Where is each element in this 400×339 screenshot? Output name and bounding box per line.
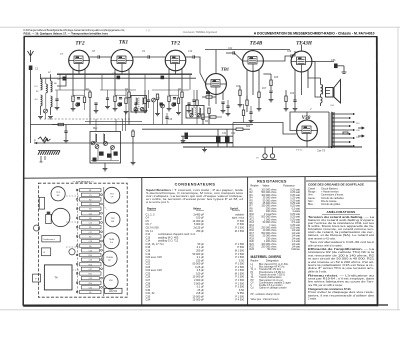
capacitor C4 <box>63 77 67 81</box>
resistor R15 <box>239 90 241 96</box>
resistor R2b <box>83 97 85 103</box>
svg-text:R19: R19 <box>290 93 295 95</box>
resistor R20 filter <box>236 128 243 130</box>
coil L1 antenna primary <box>41 79 43 90</box>
potentiometer P1 volume <box>38 137 51 144</box>
tube U6 TE43H <box>291 51 312 72</box>
svg-text:née 700, par un suffit à coupe: née 700, par un suffit à couper. <box>308 283 343 287</box>
tube U4 TB1 <box>206 74 227 95</box>
svg-text:Repère: Repère <box>251 185 260 188</box>
wire: plate link TB1-TE4B <box>205 49 290 51</box>
chassis layout box (vue de dessous) <box>38 183 127 297</box>
ground: bus B <box>204 147 206 149</box>
capacitor C16c <box>147 100 150 101</box>
svg-text:C20: C20 <box>89 250 92 252</box>
resistor R12 screen U1 <box>89 92 91 98</box>
capacitor C15 <box>134 103 137 104</box>
svg-text:GO: GO <box>35 99 39 101</box>
svg-text:tantes, il est recommandé d’ut: tantes, il est recommandé d’utiliser des <box>308 293 375 297</box>
coil L2 antenna secondary <box>41 95 43 106</box>
wire: tube U6 legs <box>301 72 303 95</box>
svg-text:Condensateur: Condensateur <box>43 238 55 241</box>
svg-text:R20: R20 <box>246 126 251 128</box>
wire: verticals top bus <box>59 74 61 90</box>
osc box inner parts <box>93 158 97 162</box>
capacitor C17b <box>192 100 195 101</box>
vertical divider cond/resist <box>247 177 249 305</box>
svg-text:et de service pour S.: et de service pour S. <box>146 200 170 204</box>
svg-text:R8: R8 <box>89 246 91 248</box>
wire: L7 drops to AVC <box>153 102 155 125</box>
svg-text:P.B.B. — 19. Quelques Valeurs: P.B.B. — 19. Quelques Valeurs 17. — Tran… <box>24 31 109 35</box>
svg-text:R15: R15 <box>236 86 241 88</box>
svg-text:Désignation: Désignation <box>266 259 279 262</box>
svg-text:C23: C23 <box>89 260 92 262</box>
tube U5 TE4B <box>243 51 264 72</box>
resistor/capacitor group U1 cathode <box>72 96 74 102</box>
capacitor C21 <box>226 106 229 107</box>
svg-text:Transfo de sortie 7 000 Ω: Transfo de sortie 7 000 Ω <box>259 273 285 276</box>
svg-text:TB1: TB1 <box>221 67 229 72</box>
chassis part: fuse holder <box>33 274 41 282</box>
trimmer CT5 <box>118 103 122 107</box>
svg-text:MATERIEL DIVERS: MATERIEL DIVERS <box>251 255 282 259</box>
oscillator block L5/L6 <box>90 132 121 164</box>
ground: coil L4 <box>48 117 53 119</box>
tube socket spare <box>52 208 70 226</box>
svg-text:C16: C16 <box>168 119 173 121</box>
wire: return bus A with arrow <box>34 142 233 144</box>
svg-text:Valve type : d’accord réserv.: Valve type : d’accord réserv. <box>251 298 280 301</box>
wire: osc to ground <box>104 163 106 168</box>
resistor R14 screen U3 <box>181 92 183 98</box>
capacitor C23 <box>293 100 296 101</box>
coil L2b third winding <box>46 84 48 93</box>
svg-text:bobinée: bobinée <box>291 248 300 251</box>
capacitor C13 padding <box>99 152 104 156</box>
svg-text:plifiée de 9 volts.: plifiée de 9 volts. <box>308 269 327 273</box>
diode load parts <box>206 91 210 94</box>
svg-text:C26: C26 <box>287 51 292 53</box>
svg-text:TE4B: TE4B <box>250 41 263 47</box>
svg-text:R17: R17 <box>89 274 92 276</box>
wire: mains to transformer <box>264 147 266 150</box>
tube socket TE43H PP <box>102 251 117 266</box>
wire: tube U5 plate to top bus <box>252 50 254 51</box>
trimmer CT6 <box>172 103 176 107</box>
svg-text:CODE DES ORGANES DE SOUFFLAGE: CODE DES ORGANES DE SOUFFLAGE <box>308 182 364 186</box>
resistor R18 tone chain <box>270 80 272 86</box>
trimmer CT4 <box>76 103 80 107</box>
svg-text:Potentiomètre 0,5 MΩ A.I.: Potentiomètre 0,5 MΩ A.I. <box>259 271 286 274</box>
chassis part: condensateur box <box>42 235 60 242</box>
svg-text:TF2: TF2 <box>171 41 181 47</box>
wire: mains arrows <box>358 127 364 137</box>
terminal strip (resistors/caps) <box>76 187 104 296</box>
capacitor C19 coupling U3-U4 <box>193 55 194 58</box>
ground: filter <box>181 141 186 143</box>
wire: antenna lead down <box>30 70 32 143</box>
svg-text:Circuits de grilles.: Circuits de grilles. <box>321 203 341 206</box>
svg-text:Bleu :: Bleu : <box>308 203 315 206</box>
svg-text:— vue dessous —: — vue dessous — <box>71 180 94 184</box>
wire: coil L3/L4 leads <box>50 74 52 81</box>
capacitor C10 <box>117 76 121 80</box>
capacitor C14 padding <box>107 154 112 158</box>
divider line above tables <box>23 176 377 178</box>
wire: tuning gang dashed <box>44 118 130 120</box>
resistor/capacitor group U3 cathode <box>168 96 170 102</box>
svg-text:Transfos MF 472 kc/s: Transfos MF 472 kc/s <box>259 268 282 271</box>
svg-text:TK1: TK1 <box>119 40 129 46</box>
capacitor C20 <box>221 102 224 103</box>
svg-text:M 1 500: M 1 500 <box>235 229 245 233</box>
wire: tube U3 legs <box>175 71 177 74</box>
variable capacitor CV1 <box>44 109 48 113</box>
IF transformer T2 (MF2) <box>186 106 204 119</box>
capacitor C8 coupling U1-U2 <box>98 55 99 58</box>
svg-text:C30: C30 <box>89 287 92 289</box>
capacitor C12b <box>161 76 165 80</box>
svg-text:TF2: TF2 <box>75 41 85 47</box>
capacitor C26 coupling U5-U6 <box>291 54 292 57</box>
trimmer CT2 <box>104 142 108 146</box>
wire: HT line <box>181 141 233 143</box>
svg-text:C11: C11 <box>89 213 92 215</box>
wire: gang verticals <box>45 113 47 119</box>
table: RESISTANCES <box>250 179 301 300</box>
wire: AVC bus <box>31 124 254 126</box>
coil L3 <box>51 81 53 92</box>
wire: y121 segment <box>85 120 142 122</box>
svg-text:2 watts.: 2 watts. <box>308 297 317 301</box>
svg-text:C32: C32 <box>231 133 236 135</box>
svg-text:Transfo d’alimentation: Transfo d’alimentation <box>259 276 282 279</box>
svg-text:R3: R3 <box>89 209 91 211</box>
svg-text:C19: C19 <box>188 51 193 53</box>
speaker field coil <box>321 97 323 106</box>
resistor R5 <box>144 98 146 104</box>
coil L4 <box>51 96 53 107</box>
svg-text:Valeur: Valeur <box>262 185 269 188</box>
wire: tone tap <box>263 73 271 75</box>
tube U1 TF2 <box>69 50 90 71</box>
resistor R7b <box>196 100 198 106</box>
svg-text:C5: C5 <box>89 195 91 197</box>
coil L6 oscillator <box>103 134 105 142</box>
svg-text:Haut-parleur 12 cm exc.: Haut-parleur 12 cm exc. <box>259 279 284 282</box>
chassis part: grommet 2 <box>34 225 40 231</box>
tube U2 TK1 <box>111 50 133 72</box>
pickup jack symbol <box>342 66 347 74</box>
resistor R11 <box>210 116 216 118</box>
wire: screen line <box>181 135 233 137</box>
wire: B+ feed vertical x233 <box>232 123 234 148</box>
svg-text:C34: C34 <box>146 298 151 302</box>
svg-text:Spécif.: Spécif. <box>230 206 239 210</box>
svg-text:Inverseurs TRAREL Argenteuil: Inverseurs TRAREL Argenteuil <box>183 31 217 34</box>
wire: tube U4 legs <box>215 94 217 104</box>
svg-text:R4: R4 <box>89 218 91 220</box>
capacitor C11 <box>94 103 97 104</box>
chassis part: small condenser <box>46 214 52 223</box>
svg-text:TE43H: TE43H <box>296 41 313 47</box>
svg-text:TA: TA <box>251 276 254 279</box>
resistor R4b <box>125 98 127 104</box>
antenna <box>28 50 34 62</box>
resistor R8 <box>208 108 210 114</box>
capacitor C22 coupling U4-U5 <box>233 51 234 54</box>
wire: osc verticals <box>122 119 124 131</box>
svg-text:15 000 pF: 15 000 pF <box>193 298 205 302</box>
svg-text:R15: R15 <box>89 264 92 266</box>
wire: coil L1 frame <box>40 74 42 79</box>
transformer taps <box>333 113 355 146</box>
svg-text:TE4B: TE4B <box>109 239 115 241</box>
wire: U6 plate to output transformer <box>308 70 321 79</box>
svg-text:P: P <box>34 139 36 143</box>
output transformer T3 <box>321 78 323 97</box>
coil cluster L7 <box>152 98 156 102</box>
tube U7 V50 <box>297 120 318 141</box>
svg-text:R2: R2 <box>89 199 91 201</box>
svg-text:Repère: Repère <box>251 259 260 262</box>
svg-text:C22: C22 <box>228 48 233 50</box>
wire: tube U5 legs <box>252 71 254 95</box>
capacitor C9 coupling U2-U3 <box>148 55 149 58</box>
right column text box <box>306 180 377 182</box>
capacitor C12c <box>106 98 109 99</box>
svg-text:Condensateur variable 2 cages: Condensateur variable 2 cages <box>259 281 292 284</box>
resistor R7c <box>177 98 179 104</box>
svg-text:V50: V50 <box>302 115 311 121</box>
capacitor C33 top right <box>334 64 338 69</box>
svg-text:R9: R9 <box>89 292 91 294</box>
svg-text:pôle commun relié à la masse.: pôle commun relié à la masse. <box>308 243 343 247</box>
wire: top heater bus <box>40 77 196 79</box>
wire: link y95 <box>73 94 85 96</box>
svg-text:C8: C8 <box>89 204 91 206</box>
capacitor C16b <box>165 117 168 118</box>
svg-text:Cde TS: Cde TS <box>317 150 326 153</box>
wire: stage link y90 <box>55 89 90 91</box>
svg-text:RESISTANCES: RESISTANCES <box>257 179 287 183</box>
svg-text:⌇⌇⌇: ⌇⌇⌇ <box>146 29 151 33</box>
electrolytic C32 <box>225 137 230 144</box>
terminal strip tie lines <box>66 196 107 280</box>
svg-text:ECH33: ECH33 <box>109 290 117 293</box>
capacitor C25 <box>249 112 252 113</box>
wire: chassis bus B <box>183 146 362 148</box>
svg-text:P 4 500: P 4 500 <box>235 298 244 302</box>
chassis hatch bar <box>38 151 60 155</box>
ground: antenna coil <box>38 117 43 119</box>
svg-text:R10: R10 <box>89 255 92 257</box>
svg-text:PO: PO <box>35 86 38 88</box>
antenna coupling cap C1 <box>29 66 33 71</box>
svg-text:R1: R1 <box>89 190 91 192</box>
capacitor C6 <box>55 99 58 100</box>
vertical divider chassis/cond <box>141 178 143 306</box>
chassis part: grommet <box>69 249 75 255</box>
capacitor C18 AVC <box>64 131 67 132</box>
svg-text:R23: R23 <box>250 248 255 251</box>
resistor/capacitor group U2 cathode <box>114 96 116 102</box>
svg-text:4 W 50: 4 W 50 <box>296 150 303 152</box>
speaker LS <box>326 80 341 104</box>
svg-text:AMÉLIORATIONS: AMÉLIORATIONS <box>327 209 356 214</box>
IF transformer T1 (MF1) <box>131 96 147 113</box>
trimmer CT1 <box>95 145 99 149</box>
vertical divider resist/right block <box>304 177 306 305</box>
page number mark bottom right <box>378 304 388 306</box>
svg-text:50 ohms: 50 ohms <box>267 248 277 251</box>
svg-text:Bloc d’accord P.O.-G.O.-B.E.: Bloc d’accord P.O.-G.O.-B.E. <box>259 263 289 266</box>
electrolytic C31 <box>216 137 221 144</box>
wire: U6 plate up <box>301 45 303 51</box>
wire: tube U1 legs <box>78 71 80 74</box>
tube socket V50 <box>104 275 119 290</box>
chassis part: bobinage box <box>42 248 51 256</box>
chassis label plate <box>105 288 123 293</box>
tube socket TE4B Pré <box>104 233 120 249</box>
chassis part: transfo alimentation TA <box>44 265 72 290</box>
mains plug J1 <box>261 150 277 160</box>
wire: tube U2 legs <box>121 72 123 75</box>
svg-text:R20: R20 <box>89 283 92 285</box>
table: CONDENSATEURS <box>146 183 245 302</box>
svg-text:R18: R18 <box>274 77 279 79</box>
svg-text:Fusible 0,5 A et cordon: Fusible 0,5 A et cordon <box>259 284 283 287</box>
svg-text:TE43H: TE43H <box>106 257 113 259</box>
coil L5 oscillator <box>95 134 97 142</box>
tube socket TK1 CF <box>104 187 120 203</box>
resistor R17 grid leak U6 <box>258 92 260 98</box>
svg-text:Repère: Repère <box>147 206 157 210</box>
svg-text:Valeur: Valeur <box>193 206 201 210</box>
svg-text:R17: R17 <box>262 88 267 90</box>
svg-text:A DOCUMENTATION DE MESSERSCHMI: A DOCUMENTATION DE MESSERSCHMIDT-RADIO -… <box>254 31 375 35</box>
resistor R19 <box>285 96 287 102</box>
tube socket TF2 MF <box>105 212 120 227</box>
svg-text:C31: C31 <box>222 133 227 135</box>
trimmer CT3 <box>111 146 115 150</box>
resistor R10 volume feed <box>202 114 204 120</box>
tube U3 TF2 <box>165 50 186 71</box>
resistor R13 screen U2 <box>128 92 130 98</box>
resistor R6 osc grid <box>132 131 134 137</box>
resistor R3 AVC filter <box>58 123 64 125</box>
wire: B+ from V50 <box>233 123 297 135</box>
wire: B+ distribution <box>142 128 233 130</box>
svg-text:Cadran et câblage complet: Cadran et câblage complet <box>259 287 287 290</box>
wire: pot to bus <box>43 139 45 143</box>
wire: bus under tubes <box>57 73 192 75</box>
wire: V50 plate feeds <box>307 112 329 120</box>
svg-text:C15: C15 <box>89 223 92 225</box>
border frame <box>23 36 377 306</box>
wire: C33 link <box>312 61 334 63</box>
svg-text:TC: TC <box>256 158 259 160</box>
tube socket TF2 HF <box>51 187 65 201</box>
fuse F1 <box>343 132 348 134</box>
wire: grid lead tube1 <box>57 74 66 86</box>
label: component refs scatter <box>36 48 312 135</box>
svg-text:C18: C18 <box>89 241 92 243</box>
svg-text:TA: TA <box>54 276 58 280</box>
chassis part: trimmer strip <box>39 197 44 209</box>
wire: V50 cathode to filter <box>306 141 308 147</box>
capacitor C27 tone <box>269 91 272 92</box>
capacitor C30 <box>185 133 189 140</box>
resistor R9 <box>206 96 212 98</box>
power transformer T4 <box>328 112 330 148</box>
terminal marks left <box>40 156 46 162</box>
svg-text:250 pF: 250 pF <box>196 229 204 233</box>
svg-text:HP : excitation champ 10 p/s: HP : excitation champ 10 p/s <box>251 293 281 296</box>
capacitor C17 <box>187 103 190 104</box>
svg-text:R5: R5 <box>89 227 91 229</box>
svg-text:C29: C29 <box>89 278 92 280</box>
svg-text:C27: C27 <box>89 269 92 271</box>
svg-text:R7: R7 <box>89 237 91 239</box>
svg-text:CONDENSATEURS: CONDENSATEURS <box>175 183 216 187</box>
svg-text:Puissance: Puissance <box>283 185 295 188</box>
resistor R16 <box>246 100 248 106</box>
svg-text:C17: C17 <box>89 232 92 234</box>
svg-text:ainsi ramené à 4,5 volts.: ainsi ramené à 4,5 volts. <box>308 236 336 240</box>
resistor R21 <box>242 110 244 116</box>
